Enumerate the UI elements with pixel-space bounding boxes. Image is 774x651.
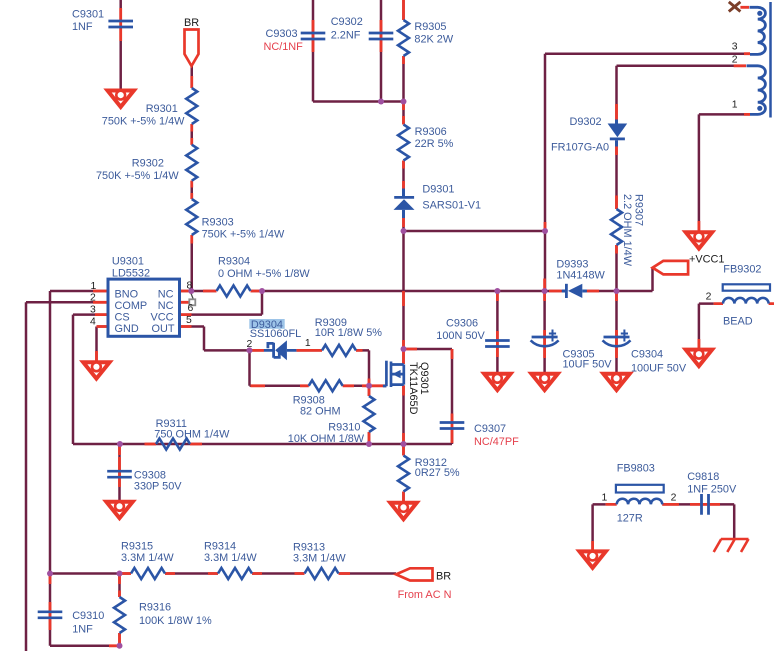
svg-text:LD5532: LD5532 [112,268,150,280]
svg-text:3.3M 1/4W: 3.3M 1/4W [121,552,174,564]
svg-text:82K 2W: 82K 2W [414,34,453,46]
svg-text:R9301: R9301 [146,103,178,115]
svg-text:BR: BR [184,17,199,29]
svg-text:GND: GND [115,323,139,335]
svg-text:R9305: R9305 [414,21,446,33]
svg-text:1NF 250V: 1NF 250V [687,484,737,496]
svg-text:22R 5%: 22R 5% [415,138,454,150]
svg-text:SARS01-V1: SARS01-V1 [422,200,481,212]
svg-text:100UF 50V: 100UF 50V [631,363,687,375]
svg-text:C9310: C9310 [72,610,104,622]
svg-text:VCC: VCC [151,312,174,324]
svg-text:R9316: R9316 [139,602,171,614]
svg-text:3.3M 1/4W: 3.3M 1/4W [293,553,346,565]
svg-text:NC/47PF: NC/47PF [474,436,519,448]
svg-text:1: 1 [305,338,311,349]
svg-text:BR: BR [436,571,451,583]
svg-text:R9307: R9307 [633,194,645,226]
svg-text:R9314: R9314 [204,541,236,553]
svg-text:3: 3 [90,305,96,316]
svg-text:8: 8 [187,281,193,292]
svg-text:NC/1NF: NC/1NF [264,41,304,53]
svg-text:FB9803: FB9803 [617,463,655,475]
svg-text:NC: NC [158,289,174,301]
svg-text:C9302: C9302 [331,16,363,28]
svg-text:C9306: C9306 [446,318,478,330]
svg-text:OUT: OUT [152,323,175,335]
svg-text:330P 50V: 330P 50V [134,480,182,492]
svg-text:1: 1 [602,493,608,504]
svg-text:+VCC1: +VCC1 [689,254,724,266]
svg-text:1: 1 [91,281,97,292]
svg-text:D9301: D9301 [422,184,454,196]
svg-text:C9304: C9304 [631,349,663,361]
svg-text:C9818: C9818 [687,471,719,483]
svg-text:R9310: R9310 [328,422,360,434]
svg-text:0 OHM +-5% 1/8W: 0 OHM +-5% 1/8W [218,268,310,280]
svg-text:R9304: R9304 [218,256,250,268]
svg-text:TK11A65D: TK11A65D [407,362,419,415]
svg-text:R9315: R9315 [121,541,153,553]
svg-text:Q9301: Q9301 [418,362,430,395]
svg-text:100N 50V: 100N 50V [436,330,485,342]
svg-text:750K +-5% 1/4W: 750K +-5% 1/4W [202,229,285,241]
svg-text:C9307: C9307 [474,423,506,435]
svg-text:BNO: BNO [115,289,139,301]
svg-text:10K OHM 1/8W: 10K OHM 1/8W [288,433,365,445]
svg-text:D9302: D9302 [570,116,602,128]
svg-text:U9301: U9301 [112,256,144,268]
svg-text:6: 6 [188,303,194,314]
svg-text:2: 2 [671,493,677,504]
svg-text:127R: 127R [617,513,643,525]
svg-text:COMP: COMP [115,300,148,312]
svg-text:750 OHM 1/4W: 750 OHM 1/4W [154,428,230,440]
svg-text:CS: CS [115,312,130,324]
svg-text:2: 2 [247,339,253,350]
svg-text:82 OHM: 82 OHM [300,406,341,418]
svg-text:5: 5 [186,315,192,326]
svg-text:1N4148W: 1N4148W [556,270,605,282]
svg-text:0R27 5%: 0R27 5% [415,467,460,479]
svg-text:10UF 50V: 10UF 50V [563,359,613,371]
svg-text:FR107G-A0: FR107G-A0 [551,142,609,154]
svg-text:750K +-5% 1/4W: 750K +-5% 1/4W [96,170,179,182]
svg-text:4: 4 [90,317,96,328]
svg-text:SS1060FL: SS1060FL [250,328,301,340]
svg-text:R9302: R9302 [132,158,164,170]
svg-text:2.2NF: 2.2NF [331,30,361,42]
svg-text:From AC N: From AC N [398,589,452,601]
svg-text:1: 1 [732,100,738,111]
svg-text:3: 3 [732,42,738,53]
svg-text:100K 1/8W 1%: 100K 1/8W 1% [139,615,212,627]
svg-text:750K +-5% 1/4W: 750K +-5% 1/4W [102,116,185,128]
svg-text:R9306: R9306 [415,126,447,138]
svg-text:1NF: 1NF [72,624,93,636]
svg-text:BEAD: BEAD [723,316,753,328]
svg-text:C9301: C9301 [72,9,104,21]
svg-text:3.3M 1/4W: 3.3M 1/4W [204,552,257,564]
svg-text:2: 2 [732,55,738,66]
svg-text:FB9302: FB9302 [723,264,761,276]
svg-text:C9303: C9303 [266,28,298,40]
svg-text:10R 1/8W 5%: 10R 1/8W 5% [315,327,383,339]
svg-text:2: 2 [706,292,712,303]
svg-text:R9303: R9303 [202,217,234,229]
svg-text:2.2 OHM 1/4W: 2.2 OHM 1/4W [621,194,633,267]
svg-text:NC: NC [158,300,174,312]
svg-text:2: 2 [90,293,96,304]
svg-text:1NF: 1NF [72,21,93,33]
